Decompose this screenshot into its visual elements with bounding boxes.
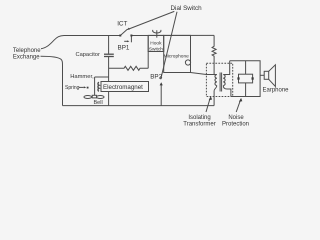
svg-text:Exchange: Exchange	[13, 55, 40, 61]
svg-text:Earphone: Earphone	[263, 88, 290, 94]
svg-text:Spring: Spring	[65, 85, 80, 91]
svg-text:BP2: BP2	[150, 73, 162, 80]
svg-text:Capacitor: Capacitor	[76, 52, 100, 58]
svg-text:Telephone: Telephone	[13, 48, 41, 54]
svg-text:Bell: Bell	[94, 100, 103, 106]
svg-text:ICT: ICT	[117, 20, 127, 27]
svg-text:Transformer: Transformer	[183, 122, 215, 128]
svg-text:BP1: BP1	[118, 45, 130, 52]
svg-text:Electromagnet: Electromagnet	[103, 84, 143, 91]
svg-text:Isolating: Isolating	[188, 115, 210, 121]
svg-text:Switch: Switch	[149, 46, 163, 52]
svg-text:Protection: Protection	[222, 122, 249, 128]
svg-text:Microphone: Microphone	[164, 54, 189, 60]
svg-text:Noise: Noise	[228, 115, 244, 121]
svg-text:Dial Switch: Dial Switch	[171, 5, 203, 12]
svg-text:Hammer,: Hammer,	[70, 74, 94, 80]
svg-text:Hook: Hook	[150, 40, 162, 46]
